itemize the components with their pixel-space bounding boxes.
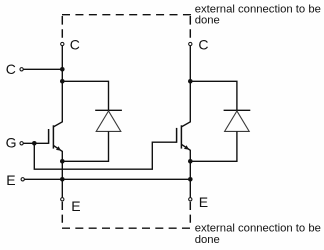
- svg-text:external connection to be: external connection to be: [195, 3, 321, 15]
- svg-text:C: C: [70, 37, 80, 53]
- svg-text:done: done: [195, 234, 220, 246]
- svg-text:C: C: [6, 61, 16, 77]
- svg-text:E: E: [71, 198, 80, 214]
- svg-text:G: G: [6, 135, 17, 151]
- svg-text:done: done: [195, 15, 220, 27]
- svg-text:E: E: [199, 194, 208, 210]
- svg-text:C: C: [198, 36, 208, 52]
- svg-text:external connection to be: external connection to be: [195, 223, 321, 235]
- svg-text:E: E: [6, 172, 15, 188]
